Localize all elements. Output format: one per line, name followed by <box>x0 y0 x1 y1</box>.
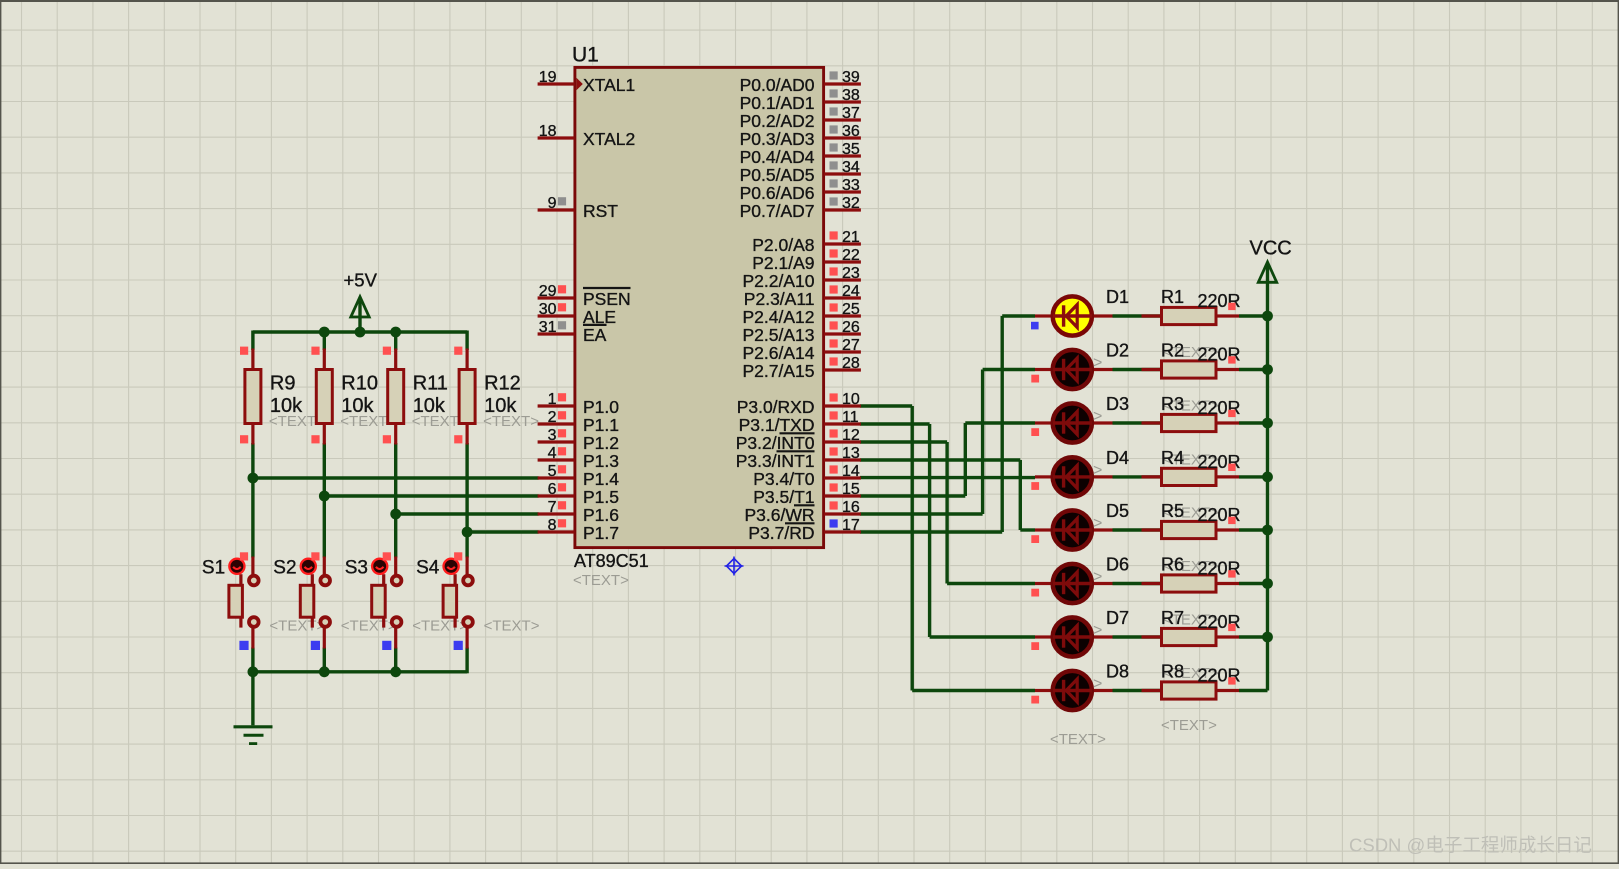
svg-text:RST: RST <box>583 201 618 221</box>
wire P3.4 to D4 <box>860 476 1035 479</box>
svg-text:31: 31 <box>539 319 557 336</box>
svg-text:R5: R5 <box>1161 501 1184 521</box>
pin 34 P0.5/AD5 <box>740 159 861 185</box>
pin 26 P2.5/A13 <box>743 319 861 345</box>
svg-text:P3.2/INT0: P3.2/INT0 <box>736 433 815 453</box>
svg-text:8: 8 <box>548 517 557 534</box>
pin 18 XTAL2 <box>538 123 636 149</box>
wire P3.6 to D2 <box>860 370 1035 515</box>
svg-text:24: 24 <box>842 283 860 300</box>
svg-text:S1: S1 <box>202 558 225 579</box>
pin 38 P0.1/AD1 <box>740 87 861 113</box>
pin 6 P1.5 <box>538 481 619 507</box>
svg-text:R2: R2 <box>1161 341 1184 361</box>
junction +5V rail at R11 <box>390 327 401 338</box>
pin 9 RST <box>538 195 619 221</box>
svg-text:EA: EA <box>583 325 607 345</box>
junction ground rail at S2 <box>319 666 330 677</box>
svg-text:27: 27 <box>842 337 860 354</box>
junction node R12/S4/P1.7 <box>462 527 473 538</box>
pin 12 P3.2/INT0 <box>736 427 861 453</box>
svg-text:37: 37 <box>842 105 860 122</box>
wire P3.5 to D3 <box>860 423 1035 496</box>
LED D4 <box>1031 448 1129 497</box>
svg-text:32: 32 <box>842 195 860 212</box>
svg-text:16: 16 <box>842 499 860 516</box>
svg-text:P0.4/AD4: P0.4/AD4 <box>740 147 815 167</box>
wire R12 bottom to S4 and P1.7 <box>467 443 538 558</box>
svg-text:7: 7 <box>548 499 557 516</box>
svg-text:14: 14 <box>842 463 860 480</box>
svg-text:P1.3: P1.3 <box>583 451 619 471</box>
resistor R5 220R <box>1113 501 1268 539</box>
svg-text:D3: D3 <box>1106 394 1129 414</box>
wire P3.0 to D8 <box>860 406 1035 691</box>
junction VCC rail at R2 <box>1262 364 1273 375</box>
svg-text:3: 3 <box>548 427 557 444</box>
pin 16 P3.6/WR <box>744 499 860 525</box>
pin 30 ALE <box>538 301 616 327</box>
svg-text:P0.0/AD0: P0.0/AD0 <box>740 75 815 95</box>
svg-text:D1: D1 <box>1106 287 1129 307</box>
svg-text:<TEXT>: <TEXT> <box>483 413 539 430</box>
svg-text:33: 33 <box>842 177 860 194</box>
resistor R6 220R <box>1113 555 1268 593</box>
svg-text:>: > <box>1093 676 1102 693</box>
resistor R11 10k <box>383 347 468 445</box>
svg-text:>: > <box>1093 462 1102 479</box>
pin 17 P3.7/RD <box>748 517 861 543</box>
wire +5V rail to resistors R9-R12 <box>253 301 467 351</box>
wire VCC rail <box>1266 264 1269 691</box>
svg-text:>: > <box>1093 355 1102 372</box>
svg-text:19: 19 <box>539 69 557 86</box>
junction ground rail at S3 <box>390 666 401 677</box>
svg-text:P1.0: P1.0 <box>583 397 619 417</box>
resistor R3 220R <box>1113 394 1268 432</box>
svg-text:P3.7/RD: P3.7/RD <box>748 523 814 543</box>
junction VCC rail at R3 <box>1262 418 1273 429</box>
LED D8 <box>1031 662 1129 711</box>
junction VCC rail at R4 <box>1262 472 1273 483</box>
pin 7 P1.6 <box>538 499 619 525</box>
LED D7 <box>1031 608 1129 657</box>
pin 27 P2.6/A14 <box>743 337 861 363</box>
junction +5V rail at +5V arrow <box>355 327 366 338</box>
push button S3 <box>345 552 469 650</box>
svg-text:13: 13 <box>842 445 860 462</box>
svg-text:R1: R1 <box>1161 287 1184 307</box>
pin 11 P3.1/TXD <box>739 409 861 435</box>
svg-text:P2.5/A13: P2.5/A13 <box>743 325 815 345</box>
wire R10 bottom to S2 and P1.5 <box>324 443 538 558</box>
svg-text:XTAL2: XTAL2 <box>583 129 635 149</box>
push button S1 <box>202 552 326 650</box>
svg-text:2: 2 <box>548 409 557 426</box>
wire ground rail from buttons <box>253 648 467 726</box>
svg-text:PSEN: PSEN <box>583 289 631 309</box>
svg-text:15: 15 <box>842 481 860 498</box>
LED D1 <box>1031 287 1129 336</box>
svg-text:P1.1: P1.1 <box>583 415 619 435</box>
svg-text:4: 4 <box>548 445 557 462</box>
svg-text:VCC: VCC <box>1250 238 1292 260</box>
label <TEXT> under R8 <box>1161 717 1217 734</box>
svg-text:26: 26 <box>842 319 860 336</box>
pin 10 P3.0/RXD <box>737 391 861 417</box>
svg-text:D8: D8 <box>1106 662 1129 682</box>
svg-text:R12: R12 <box>484 373 521 395</box>
svg-text:5: 5 <box>548 463 557 480</box>
pin 33 P0.6/AD6 <box>740 177 861 203</box>
svg-text:6: 6 <box>548 481 557 498</box>
svg-text:9: 9 <box>548 195 557 212</box>
push button S4 <box>416 552 540 650</box>
origin marker <box>725 557 744 576</box>
ground <box>234 727 273 744</box>
svg-text:R6: R6 <box>1161 555 1184 575</box>
junction VCC rail at R6 <box>1262 578 1273 589</box>
svg-text:P2.2/A10: P2.2/A10 <box>743 271 815 291</box>
junction node R9/S1/P1.4 <box>248 473 259 484</box>
svg-text:D7: D7 <box>1106 608 1129 628</box>
svg-text:P2.1/A9: P2.1/A9 <box>752 253 814 273</box>
svg-text:R7: R7 <box>1161 608 1184 628</box>
svg-text:P1.4: P1.4 <box>583 469 619 489</box>
LED D2 <box>1031 341 1129 390</box>
svg-text:P1.7: P1.7 <box>583 523 619 543</box>
junction ground rail at S1 <box>248 666 259 677</box>
wire P3.3 to D5 <box>860 460 1035 530</box>
svg-text:P0.2/AD2: P0.2/AD2 <box>740 111 815 131</box>
resistor R12 10k <box>454 347 539 445</box>
svg-text:P3.4/T0: P3.4/T0 <box>753 469 815 489</box>
svg-text:S3: S3 <box>345 558 368 579</box>
svg-text:P2.4/A12: P2.4/A12 <box>743 307 815 327</box>
svg-text:R3: R3 <box>1161 394 1184 414</box>
junction +5V rail at R10 <box>319 327 330 338</box>
svg-text:30: 30 <box>539 301 557 318</box>
LED D5 <box>1031 501 1129 550</box>
svg-text:D6: D6 <box>1106 555 1129 575</box>
svg-text:11: 11 <box>842 409 859 426</box>
svg-text:P3.3/INT1: P3.3/INT1 <box>736 451 815 471</box>
svg-text:R10: R10 <box>341 373 378 395</box>
junction node R10/S2/P1.5 <box>319 491 330 502</box>
IC U1 AT89C51 body <box>572 44 824 590</box>
junction VCC rail at R7 <box>1262 632 1273 643</box>
svg-text:<TEXT>: <TEXT> <box>1050 731 1106 748</box>
wire R11 bottom to S3 and P1.6 <box>396 443 539 558</box>
LED D6 <box>1031 555 1129 604</box>
svg-text:<TEXT>: <TEXT> <box>341 618 397 635</box>
svg-text:P0.6/AD6: P0.6/AD6 <box>740 183 815 203</box>
pin 25 P2.4/A12 <box>743 301 861 327</box>
svg-text:>: > <box>1093 515 1102 532</box>
pin 21 P2.0/A8 <box>752 229 861 255</box>
resistor R1 220R <box>1113 287 1268 325</box>
svg-text:XTAL1: XTAL1 <box>583 75 635 95</box>
svg-text:R9: R9 <box>270 373 296 395</box>
pin 3 P1.2 <box>538 427 619 453</box>
resistor R4 220R <box>1113 448 1268 486</box>
svg-text:S2: S2 <box>273 558 296 579</box>
svg-text:P2.6/A14: P2.6/A14 <box>743 343 815 363</box>
svg-text:>: > <box>1093 622 1102 639</box>
power +5V <box>344 270 378 318</box>
pin 37 P0.2/AD2 <box>740 105 861 131</box>
svg-text:18: 18 <box>539 123 557 140</box>
resistor R7 220R <box>1113 608 1268 646</box>
pin 35 P0.4/AD4 <box>740 141 861 167</box>
svg-text:12: 12 <box>842 427 860 444</box>
svg-text:P3.1/TXD: P3.1/TXD <box>739 415 815 435</box>
resistor R9 10k <box>240 347 325 445</box>
wire P3.1 to D7 <box>860 424 1035 637</box>
svg-text:P0.7/AD7: P0.7/AD7 <box>740 201 815 221</box>
resistor R10 10k <box>311 347 396 445</box>
svg-text:29: 29 <box>539 283 557 300</box>
resistor R2 220R <box>1113 341 1268 379</box>
junction node R11/S3/P1.6 <box>390 509 401 520</box>
svg-text:34: 34 <box>842 159 860 176</box>
pin 22 P2.1/A9 <box>752 247 861 273</box>
svg-text:P3.5/T1: P3.5/T1 <box>753 487 814 507</box>
LED D3 <box>1031 394 1129 443</box>
svg-text:<TEXT>: <TEXT> <box>412 618 468 635</box>
svg-text:22: 22 <box>842 247 860 264</box>
svg-text:P2.7/A15: P2.7/A15 <box>743 361 815 381</box>
push button S2 <box>273 552 397 650</box>
watermark CSDN <box>1349 835 1592 856</box>
svg-text:17: 17 <box>842 517 860 534</box>
pin 13 P3.3/INT1 <box>736 445 861 471</box>
pin 36 P0.3/AD3 <box>740 123 861 149</box>
svg-text:D5: D5 <box>1106 501 1129 521</box>
pin 31 EA <box>538 319 607 345</box>
svg-text:36: 36 <box>842 123 860 140</box>
pin 29 PSEN <box>538 283 631 309</box>
svg-text:CSDN @电子工程师成长日记: CSDN @电子工程师成长日记 <box>1349 835 1592 856</box>
pin 5 P1.4 <box>538 463 620 489</box>
svg-text:28: 28 <box>842 355 860 372</box>
svg-text:R4: R4 <box>1161 448 1184 468</box>
svg-text:P1.5: P1.5 <box>583 487 619 507</box>
svg-text:U1: U1 <box>572 44 599 67</box>
svg-text:P2.0/A8: P2.0/A8 <box>752 235 814 255</box>
junction VCC rail at R1 <box>1262 311 1273 322</box>
pin 28 P2.7/A15 <box>743 355 861 381</box>
pin 2 P1.1 <box>538 409 619 435</box>
svg-text:D2: D2 <box>1106 341 1129 361</box>
svg-text:+5V: +5V <box>344 270 378 291</box>
svg-text:<TEXT>: <TEXT> <box>1161 717 1217 734</box>
pin 23 P2.2/A10 <box>743 265 861 291</box>
pin 19 XTAL1 <box>538 69 636 95</box>
svg-text:10: 10 <box>842 391 860 408</box>
svg-text:AT89C51: AT89C51 <box>574 551 649 571</box>
svg-text:>: > <box>1093 569 1102 586</box>
svg-text:P0.5/AD5: P0.5/AD5 <box>740 165 815 185</box>
svg-text:23: 23 <box>842 265 860 282</box>
svg-text:P3.6/WR: P3.6/WR <box>744 505 814 525</box>
power VCC <box>1250 238 1292 283</box>
resistor R8 220R <box>1113 662 1268 700</box>
svg-text:P1.6: P1.6 <box>583 505 619 525</box>
pin 1 P1.0 <box>538 391 620 417</box>
pin 14 P3.4/T0 <box>753 463 861 489</box>
pin 39 P0.0/AD0 <box>740 69 861 95</box>
svg-text:S4: S4 <box>416 558 440 579</box>
svg-text:39: 39 <box>842 69 860 86</box>
pin 32 P0.7/AD7 <box>740 195 861 221</box>
svg-text:35: 35 <box>842 141 860 158</box>
svg-text:P3.0/RXD: P3.0/RXD <box>737 397 815 417</box>
svg-text:P2.3/A11: P2.3/A11 <box>744 289 815 309</box>
svg-text:D4: D4 <box>1106 448 1129 468</box>
svg-text:R8: R8 <box>1161 662 1184 682</box>
svg-text:38: 38 <box>842 87 860 104</box>
svg-text:21: 21 <box>842 229 860 246</box>
pin 15 P3.5/T1 <box>753 481 861 507</box>
pin 4 P1.3 <box>538 445 619 471</box>
svg-text:1: 1 <box>548 391 557 408</box>
junction VCC rail at R5 <box>1262 525 1273 536</box>
pin 24 P2.3/A11 <box>744 283 861 309</box>
wire P3.7 to D1 <box>860 316 1035 532</box>
svg-text:P0.1/AD1: P0.1/AD1 <box>740 93 815 113</box>
pin 8 P1.7 <box>538 517 619 543</box>
wire R9 bottom to S1 and P1.4 <box>253 443 539 558</box>
label <TEXT> under D8 <box>1050 731 1106 748</box>
svg-text:P1.2: P1.2 <box>583 433 619 453</box>
svg-text:<TEXT>: <TEXT> <box>573 572 629 589</box>
svg-text:>: > <box>1093 408 1102 425</box>
svg-text:<TEXT>: <TEXT> <box>269 618 325 635</box>
svg-text:25: 25 <box>842 301 860 318</box>
wire P3.2 to D6 <box>860 442 1035 584</box>
svg-text:<TEXT>: <TEXT> <box>484 618 540 635</box>
svg-text:R11: R11 <box>413 373 448 395</box>
svg-text:P0.3/AD3: P0.3/AD3 <box>740 129 815 149</box>
